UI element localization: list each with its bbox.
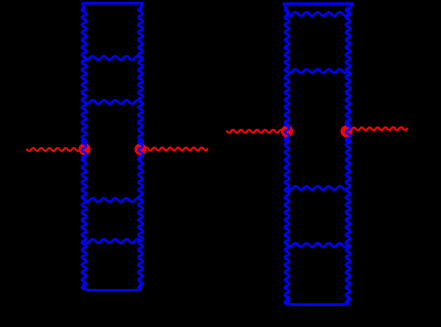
right ladder wavy rung 3 [287, 186, 348, 190]
right ladder bottom bar [287, 299, 348, 305]
right ladder right vertical over blob [346, 122, 350, 142]
right ladder right vertical photon line [346, 8, 350, 304]
left ladder top bar [83, 3, 143, 10]
right ladder wavy rung 1 [287, 12, 348, 16]
right ladder wavy rung 4 [287, 243, 348, 247]
left diagram outgoing red photon (right) [141, 148, 208, 151]
left ladder left vertical photon line [82, 8, 86, 289]
left ladder right vertical over blob [138, 140, 142, 160]
left ladder left vertical over blob [82, 140, 86, 160]
left diagram right vertex blob [135, 143, 147, 155]
right diagram incoming red photon (left) [227, 130, 287, 133]
right ladder left vertical over blob [285, 122, 289, 142]
left diagram left vertex blob [79, 143, 91, 155]
left diagram incoming red photon (left) [27, 148, 84, 151]
left ladder right vertical photon line [138, 8, 142, 289]
right diagram right vertex blob [341, 125, 353, 137]
left ladder wavy rung 3 [84, 198, 141, 202]
right ladder top bar [284, 4, 352, 11]
left ladder wavy rung 1 [84, 56, 141, 60]
right diagram left vertex blob [281, 125, 293, 137]
left ladder bottom bar [84, 284, 141, 290]
left ladder wavy rung 4 [84, 239, 141, 243]
right ladder left vertical photon line [285, 8, 289, 304]
right ladder wavy rung 2 [287, 69, 348, 73]
left ladder wavy rung 2 [84, 100, 141, 104]
right diagram outgoing red photon (right) [348, 127, 407, 130]
